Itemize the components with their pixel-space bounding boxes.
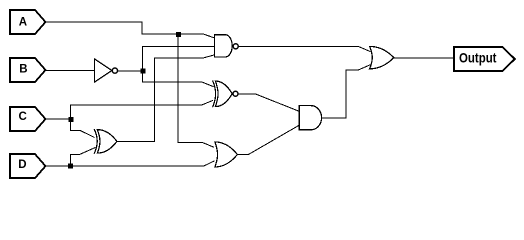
wire ND-up: junction ND to XOR U4 bottom input: [70, 148, 95, 167]
input flag B: [10, 58, 46, 82]
svg-text:Output: Output: [459, 50, 497, 66]
wire C: flag C to junction NC: [46, 118, 71, 120]
xor gate U4 body: [97, 130, 117, 154]
inverter U2 output bubble: [112, 68, 117, 73]
nand gate U1 body: [215, 35, 233, 57]
inverter U2 (NOT gate) triangle: [95, 59, 112, 82]
wire A-branch: junction NA down to OR gate G4 top input: [178, 34, 213, 147]
svg-text:A: A: [19, 16, 27, 28]
wire B: flag B to inverter U2 input: [46, 70, 95, 72]
wire NB-down: junction NB to XNOR U3 top input: [143, 71, 214, 87]
nand gate U1 output bubble: [233, 44, 238, 49]
wire NC-down: junction NC to XOR U4 top input: [71, 119, 94, 137]
wire B-inv: inverter U2 output to junction NB: [118, 70, 143, 72]
svg-text:C: C: [19, 111, 27, 123]
wire XOR-out: XOR U4 output up to NAND U1 bottom input: [117, 55, 214, 141]
xnor gate U3 body: [215, 81, 232, 107]
output flag: [454, 47, 515, 71]
svg-text:B: B: [19, 64, 27, 76]
junction node NA on A wire: [176, 32, 181, 37]
xnor gate U3 output bubble: [233, 91, 238, 96]
junction node NC on C wire: [68, 117, 73, 122]
junction node NB on inverted-B wire: [140, 69, 145, 74]
junction node ND on D wire: [68, 164, 73, 169]
wire D: flag D to OR gate G4 bottom input: [46, 161, 215, 166]
wire NB-up: junction NB to NAND U1 middle input: [143, 46, 215, 70]
wire AND-out: AND U5 output up to OR gate G6 bottom input: [322, 65, 370, 118]
wire XNOR-out: XNOR U3 output to AND U5 top input: [238, 94, 300, 112]
input flag D: [10, 154, 46, 178]
wire NAND-out: NAND U1 output to OR gate G6 top input: [238, 47, 370, 52]
svg-text:D: D: [18, 159, 26, 171]
xnor gate U3 extra input arc: [213, 81, 216, 107]
wire OR-out: OR gate G4 output to AND U5 bottom input: [237, 125, 299, 155]
wire OUT: OR gate G6 output to Output flag: [394, 57, 454, 59]
or gate G4 body: [215, 142, 238, 167]
and gate U5 body: [299, 106, 321, 130]
xor gate U4 extra input arc: [94, 130, 97, 154]
input flag A: [10, 10, 46, 34]
wire A: flag A to NAND U1 top input: [46, 22, 215, 38]
input flag C: [10, 107, 46, 131]
wire NC-up: junction NC to XNOR U3 bottom input: [71, 101, 213, 120]
or gate G6 body: [370, 46, 394, 68]
